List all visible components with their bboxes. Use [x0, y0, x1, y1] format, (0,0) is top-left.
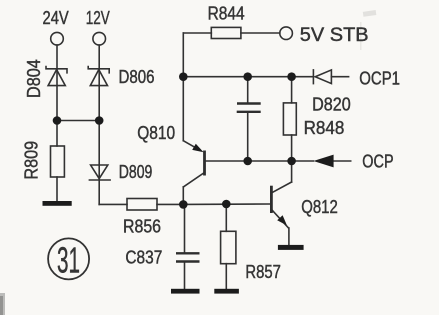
svg-text:C837: C837: [125, 248, 162, 268]
svg-text:D820: D820: [312, 95, 351, 115]
svg-text:5V STB: 5V STB: [300, 25, 369, 46]
svg-text:24V: 24V: [43, 8, 69, 28]
svg-text:OCP: OCP: [362, 152, 393, 172]
svg-text:R844: R844: [208, 3, 245, 23]
svg-text:D806: D806: [119, 67, 155, 87]
svg-text:D809: D809: [119, 162, 153, 182]
svg-text:OCP1: OCP1: [359, 69, 400, 89]
svg-text:31: 31: [57, 240, 80, 281]
svg-text:R857: R857: [245, 262, 281, 282]
svg-text:12V: 12V: [86, 8, 110, 28]
svg-text:D804: D804: [24, 59, 44, 98]
svg-text:Q810: Q810: [137, 123, 175, 143]
svg-text:Q812: Q812: [301, 197, 338, 217]
svg-text:R809: R809: [22, 141, 42, 180]
svg-text:R856: R856: [123, 217, 161, 237]
svg-text:R848: R848: [304, 118, 345, 138]
